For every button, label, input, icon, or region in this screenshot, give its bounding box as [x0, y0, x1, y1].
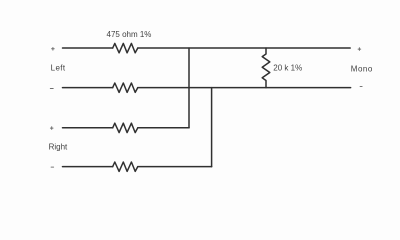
svg-text:Mono: Mono [351, 65, 373, 74]
wire: Right - lead [63, 166, 113, 168]
wire: riser Right + up to top node [188, 48, 190, 128]
wire: Left + to top output node [138, 47, 350, 49]
resistor R3 [113, 123, 138, 132]
svg-text:475 ohm 1%: 475 ohm 1% [107, 30, 152, 39]
node terminal Mono + [358, 48, 361, 51]
svg-text:Left: Left [51, 64, 66, 73]
wire: Left - to bottom output node [138, 87, 351, 89]
node terminal Right + [50, 127, 53, 130]
svg-text:Right: Right [49, 143, 68, 152]
svg-text:20 k 1%: 20 k 1% [273, 64, 302, 73]
wire: Right + lead [63, 127, 113, 129]
node terminal Left - [50, 88, 53, 90]
resistor R1 475 ohm 1% [113, 43, 138, 52]
resistor R2 [113, 83, 138, 92]
wire: Left + lead [63, 47, 113, 49]
wire: riser Right - up to bottom node [211, 88, 213, 167]
resistor R4 [113, 162, 138, 171]
node terminal Left + [52, 48, 55, 51]
wire: Right - run to riser [138, 166, 212, 168]
wire: Left - lead [63, 87, 113, 89]
node terminal Mono - [360, 86, 362, 88]
node terminal Right - [51, 166, 54, 168]
wire: Right + run to riser [138, 127, 189, 129]
resistor R5 20 k 1% (shunt) [262, 48, 270, 88]
